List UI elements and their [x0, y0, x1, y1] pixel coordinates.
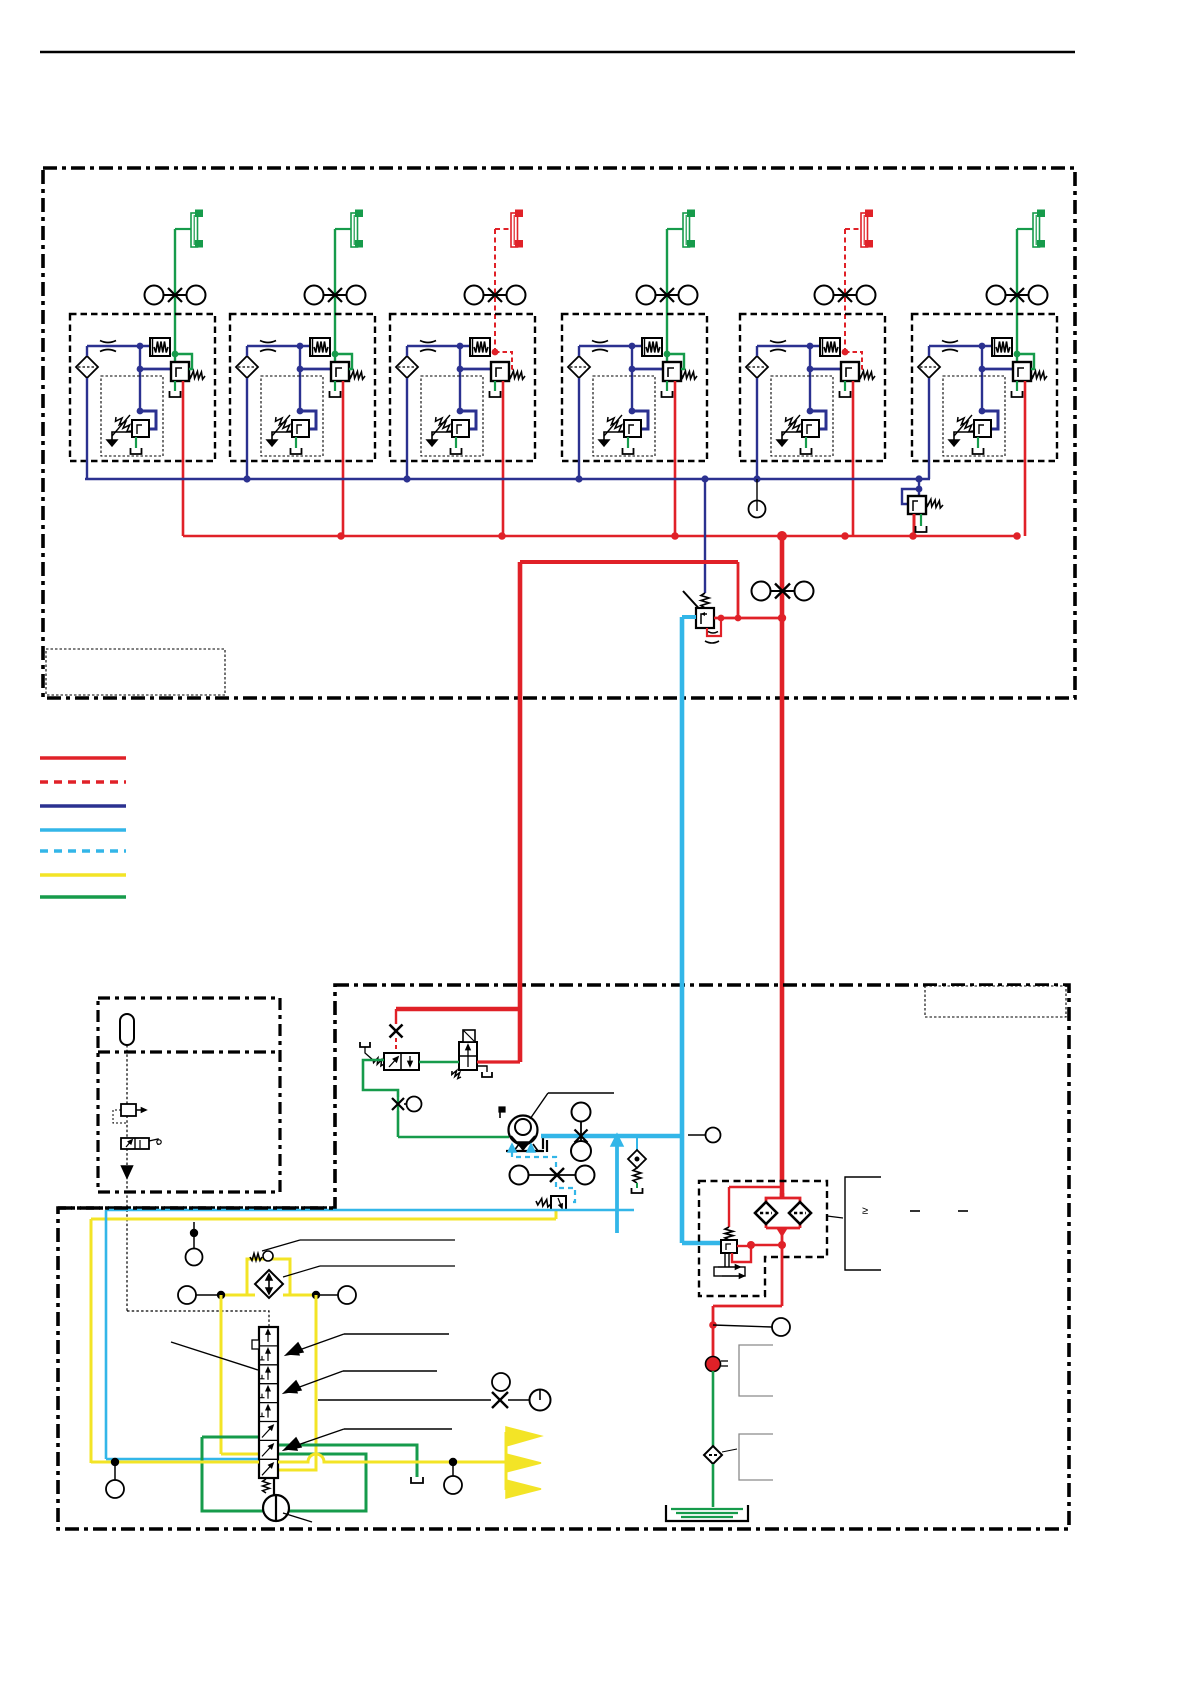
brake control cluster 2 - service brake (green pilot) — [230, 210, 375, 536]
callout arrow 1 — [286, 1334, 449, 1355]
reservoir tank — [666, 1505, 748, 1521]
check valve on cyan — [628, 1136, 646, 1193]
green supply loop — [202, 1437, 366, 1511]
thick cyan suction/return line — [541, 617, 721, 1243]
test circle at cyan junction — [688, 1128, 721, 1143]
closed coupling X on pilot line — [390, 1009, 403, 1053]
pressure gauge under blue bus — [749, 479, 766, 518]
wire: blue drop to brake valve — [704, 479, 706, 593]
thick red feed line with elbow — [396, 562, 522, 1062]
legend line cyan dashed — [40, 849, 126, 852]
border redraw over cyan — [58, 1206, 335, 1210]
callout line left — [171, 1342, 258, 1370]
wire: red valve link — [477, 1061, 520, 1064]
stack bottom spring and pump — [263, 1478, 313, 1522]
cyan left drop — [106, 1210, 259, 1459]
power unit dash-dot border (L-shape) — [58, 985, 1069, 1529]
accumulator capsule — [120, 1014, 134, 1045]
filter label bracket — [827, 1177, 968, 1270]
callout arrow 2 — [284, 1371, 437, 1393]
hand valve 3/2 — [121, 1138, 161, 1149]
wire: cyan from brake valve — [682, 615, 696, 619]
brake control cluster 6 - service brake (green pilot) — [912, 210, 1057, 536]
test circle right on yellow bus — [444, 1462, 462, 1494]
legend line red — [40, 756, 126, 759]
test circle left on yellow bus — [106, 1462, 124, 1498]
brake control cluster 1 - service brake (green pilot) — [70, 210, 215, 536]
red return to tank — [709, 1245, 782, 1357]
pressure switch (hand pump box) — [113, 1104, 146, 1123]
callout arrow 3 — [284, 1429, 452, 1450]
yellow left drop — [90, 1219, 93, 1463]
legend line yellow — [40, 873, 126, 876]
control dotted line from accumulator — [127, 1045, 269, 1327]
arrowhead on control line — [122, 1166, 133, 1178]
charge relief valve — [536, 1196, 566, 1219]
brake (foot) valve — [683, 591, 714, 628]
quick coupling with X (top) — [752, 582, 814, 601]
wire: red from brake valve to junction — [714, 615, 782, 622]
page header rule — [40, 51, 1075, 54]
test circle on red return — [713, 1318, 790, 1336]
brake control cluster 5 - spring brake (red pilot) — [740, 210, 885, 536]
hand pump dash-dot box — [98, 998, 280, 1192]
relief valve top right — [902, 479, 943, 536]
top section dash-dot border (brake circuit box) — [43, 168, 1075, 698]
yellow outlet arrows — [506, 1427, 541, 1498]
brake valve drain pot — [705, 618, 721, 643]
thick red main pressure line (to power unit) — [778, 536, 786, 1197]
brake control cluster 3 - spring brake (red pilot) — [390, 210, 535, 536]
wire: green to check valve — [712, 1371, 715, 1446]
green loop at pilot valve — [363, 1060, 398, 1097]
solenoid valve 3/2 — [452, 1030, 492, 1078]
brake control cluster 4 - service brake (green pilot) — [562, 210, 707, 536]
filter drain symbol — [714, 1253, 745, 1278]
power unit label box — [925, 986, 1066, 1017]
main control valve stack — [252, 1327, 278, 1478]
yellow return line upper — [91, 1218, 556, 1221]
callout bracket 2 — [739, 1434, 773, 1480]
filter bypass relief valve — [721, 1187, 786, 1262]
legend line red dashed — [40, 780, 126, 783]
wire: yellow filter drop left — [221, 1295, 259, 1454]
pilot operated valve (park brake) — [360, 1042, 419, 1070]
yellow delivery bus — [91, 1454, 506, 1466]
thin cyan return line — [106, 1209, 634, 1212]
legend line green — [40, 895, 126, 898]
horizontal test point pair — [510, 1166, 595, 1185]
hydraulic pump — [499, 1107, 547, 1152]
return filter dashed box — [699, 1181, 827, 1296]
wire: green valve link — [419, 1061, 459, 1063]
filter leader lines — [262, 1240, 455, 1277]
top section label box — [46, 649, 225, 695]
green tank branch — [278, 1445, 423, 1483]
gauge port line with X — [318, 1373, 551, 1411]
vertical test point pair on cyan — [571, 1103, 591, 1162]
callout bracket 1 — [739, 1345, 773, 1396]
test coupling X-circle on green — [392, 1097, 422, 1112]
wire: yellow filter drop right — [278, 1295, 316, 1470]
wire: red riser to trailer line — [520, 562, 738, 618]
cyan pilot dashed lines — [508, 1144, 575, 1206]
svg-text:≥: ≥ — [862, 1205, 868, 1217]
test circle on yellow return — [186, 1222, 203, 1266]
legend line dark blue — [40, 804, 126, 807]
tank check valve — [704, 1446, 737, 1464]
cyan branch with up arrow — [611, 1134, 623, 1233]
red delivery bus — [183, 531, 1021, 541]
twin filter diamonds with red loop — [755, 1193, 811, 1245]
wire: green to pump — [398, 1111, 509, 1137]
temperature switch (red bulb) — [706, 1357, 729, 1372]
blue pilot supply bus — [85, 475, 930, 482]
suction filter with bypass — [178, 1251, 356, 1304]
wire: green to tank — [712, 1464, 715, 1507]
pump leader line — [530, 1093, 614, 1119]
legend line cyan — [40, 828, 126, 831]
